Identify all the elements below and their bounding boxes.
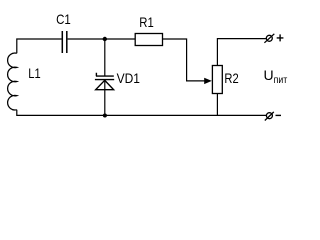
- resistor R1: [135, 34, 162, 46]
- wire: R1 output down to R2 wiper: [163, 39, 205, 81]
- wire: top-left from L1 top to C1 left plate: [17, 39, 62, 53]
- potentiometer R2: [212, 66, 222, 94]
- terminal + (output clamp): [264, 34, 274, 43]
- label -: [276, 114, 282, 116]
- junction: VD1 anode / bottom rail: [103, 114, 107, 118]
- terminal - (output clamp): [265, 112, 274, 121]
- wire: C1 right plate to R1 left lead: [68, 38, 136, 40]
- svg-text:R2: R2: [224, 70, 238, 86]
- svg-text:R1: R1: [139, 14, 154, 30]
- wire: R2 top to + terminal: [217, 39, 266, 66]
- capacitor C1: [62, 31, 67, 53]
- zener VD1: triangle (anode): [96, 80, 114, 89]
- inductor L1: [8, 53, 17, 110]
- wire: bottom rail: [17, 110, 266, 116]
- svg-text:L1: L1: [28, 65, 41, 81]
- wire: VD1 cathode lead (vertical): [104, 39, 106, 76]
- label +: [277, 34, 284, 41]
- zener VD1: second bar: [95, 79, 114, 81]
- junction: node C1/R1/VD1: [103, 37, 107, 41]
- svg-text:VD1: VD1: [117, 70, 141, 86]
- wire: R2 bottom lead: [216, 94, 218, 116]
- zener VD1: cathode bar with hook: [96, 73, 114, 76]
- wire: VD1 anode lead (vertical): [104, 80, 106, 115]
- svg-text:C1: C1: [56, 11, 71, 27]
- arrowhead: R2 wiper arrow: [204, 78, 212, 84]
